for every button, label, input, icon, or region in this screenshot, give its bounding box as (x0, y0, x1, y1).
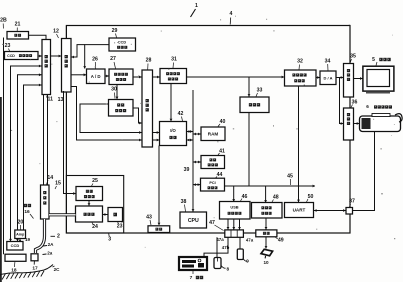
wire 25 to 24 (88, 201, 90, 207)
wire 27 to 28 (133, 76, 142, 78)
mouse 8 icon (214, 258, 221, 269)
dimming controller 25 (76, 187, 103, 201)
light guide thick path 14 down to 17 (36, 219, 45, 253)
box matrix 21 (7, 32, 29, 40)
svg-text:CCD: CCD (7, 54, 15, 58)
svg-text:2C: 2C (54, 267, 61, 272)
svg-text:25: 25 (92, 178, 98, 184)
svg-text:43: 43 (146, 215, 152, 221)
svg-text:2: 2 (57, 233, 60, 239)
svg-text:D / A: D / A (324, 75, 333, 80)
isolator 11 tall box (42, 40, 51, 95)
svg-text:45: 45 (287, 174, 293, 180)
svg-text:27: 27 (110, 56, 116, 62)
bus to RAM (193, 133, 201, 135)
keyboard 7 icon (179, 257, 207, 270)
svg-text:Amp: Amp (16, 232, 25, 236)
amplifier 20 (15, 230, 26, 239)
light measuring controller 30 (109, 100, 134, 117)
PC card 10 icon parallelogram (261, 249, 273, 256)
svg-text:8: 8 (227, 267, 230, 272)
wire 11 to 13 (51, 55, 62, 57)
card slot 49 on enclosure bottom (256, 230, 277, 237)
objective unit 18 (5, 254, 26, 261)
svg-text:40: 40 (220, 119, 226, 125)
svg-text:34: 34 (325, 58, 331, 64)
svg-text:A / D: A / D (91, 74, 101, 79)
wire UART to 37 bidirectional (314, 210, 347, 212)
processor unit enclosure 4 (66, 26, 350, 234)
wire 37 to printer riser (353, 132, 375, 211)
rear video processor 31 (160, 69, 187, 84)
wire 29 to selector 13 (71, 45, 85, 57)
wire 21 to isolator 11 top (29, 35, 47, 39)
wire 13 to A/D (71, 74, 87, 76)
wire 47 middle port to mouse 8 (216, 237, 218, 257)
svg-text:23: 23 (117, 223, 123, 229)
svg-text:42: 42 (178, 111, 184, 117)
svg-text:41: 41 (219, 148, 225, 154)
svg-text:9: 9 (246, 259, 249, 264)
bus drop to PC card controller (265, 186, 267, 203)
graphics overlay 32 (285, 70, 317, 86)
wire 47 right port to 9 (239, 237, 241, 249)
CCD 19 (7, 242, 23, 251)
wires 11 down to 14 (43, 95, 45, 186)
svg-text:49: 49 (278, 238, 284, 244)
svg-text:50: 50 (308, 194, 314, 200)
wire from selector 13 down into 25 (64, 91, 77, 194)
wire 32 down to UART (298, 86, 300, 202)
bus to I/O port stubs (187, 131, 194, 133)
svg-text:12: 12 (53, 28, 59, 34)
svg-text:20: 20 (18, 219, 24, 225)
label optical 16 (24, 204, 27, 207)
svg-text:19: 19 (25, 237, 31, 242)
svg-text:28: 28 (146, 58, 152, 64)
svg-text:33: 33 (257, 88, 263, 94)
A/D converter 26 (87, 69, 106, 84)
wire 35 to monitor (354, 78, 363, 80)
wire 30 left-down to 28 (80, 104, 142, 133)
svg-text:I/O: I/O (170, 128, 176, 133)
wire I/O port down to 43 (158, 146, 160, 226)
lens unit 17 (31, 254, 38, 261)
svg-text:47a: 47a (246, 237, 254, 242)
D/A converter 34 (320, 71, 336, 85)
front video processor 27 (109, 69, 133, 85)
wire 28 to I/O port upper (153, 132, 160, 134)
video printer 6 icon (360, 116, 401, 132)
wire 47 left port to keyboard (204, 237, 228, 257)
svg-text:11: 11 (48, 96, 54, 102)
field memory 28 tall box (142, 70, 153, 147)
svg-text:7: 7 (190, 275, 193, 281)
wire 28 to 31 (153, 76, 161, 78)
connector 36 tall box (344, 108, 354, 140)
wire 31 down to I/O port (170, 84, 172, 122)
bus drop to USB host controller (233, 186, 235, 202)
connector 37 small box (346, 208, 353, 215)
svg-text:2B: 2B (0, 17, 7, 23)
wire D/A to connector 35 (336, 77, 344, 79)
lamp 23 (108, 208, 123, 222)
wire CCD to Amp (19, 239, 21, 242)
microphone 9 icon (237, 249, 243, 260)
subject 2C hatched tissue (0, 265, 53, 275)
svg-text:CCD: CCD (118, 41, 126, 45)
monitor 5 icon (363, 66, 394, 91)
wire 32 to D/A (316, 77, 320, 79)
wire 31 to graphics overlay 32 (187, 76, 285, 78)
wire tee down to connector 36 (340, 78, 344, 124)
bus to PCI bridge (193, 184, 201, 186)
USB host controller 46 (220, 202, 251, 220)
svg-text:29: 29 (112, 28, 118, 34)
wire 48 to 49 (265, 218, 267, 230)
svg-text:39: 39 (184, 167, 190, 173)
svg-text:CPU: CPU (188, 218, 199, 224)
light guide connector 14 tall box (41, 185, 50, 219)
svg-text:48: 48 (273, 195, 279, 201)
svg-text:44: 44 (217, 172, 223, 178)
light guide thick path 24 to 14 (49, 213, 76, 216)
svg-text:UART: UART (293, 208, 306, 213)
wire CCD drive line 2 down to CCD (18, 75, 43, 241)
svg-text:38: 38 (181, 199, 187, 205)
svg-text:1: 1 (195, 3, 198, 9)
tick below 17 (33, 261, 35, 265)
wires 46 to 47 (227, 219, 229, 230)
wire video line from Amp up to processor 11 (24, 85, 43, 230)
svg-text:35: 35 (350, 54, 356, 60)
wire junction 31-32 line down to 33 (248, 77, 250, 97)
wire 23 to 11 (38, 55, 42, 57)
scan edge artifact left (0, 97, 2, 282)
PC card controller 48 (252, 203, 283, 219)
CPU 38 (180, 212, 207, 228)
svg-text:14: 14 (47, 175, 53, 181)
svg-text:USB: USB (230, 204, 238, 209)
I/O port 42 (160, 122, 187, 146)
RAM 40 (201, 127, 225, 141)
svg-text:13: 13 (58, 97, 64, 103)
svg-text:26: 26 (92, 56, 98, 62)
svg-text:5: 5 (372, 57, 375, 63)
svg-text:46: 46 (242, 194, 248, 200)
selector 13 tall box (62, 39, 72, 93)
wire top border into 13 (65, 26, 67, 39)
svg-text:32: 32 (297, 59, 303, 65)
wire lamp to dimmer (103, 214, 109, 216)
svg-text:4: 4 (230, 11, 233, 17)
wire 29 to A/D top (85, 45, 109, 69)
svg-text:3: 3 (108, 237, 111, 243)
svg-text:6: 6 (366, 104, 369, 109)
UART 50 (285, 203, 314, 218)
svg-text:17: 17 (32, 265, 38, 271)
system bus 39 (192, 90, 194, 212)
wire 13 bypass to field memory 28 (71, 87, 142, 141)
graphics buffer 33 (240, 97, 269, 113)
svg-text:2A: 2A (48, 242, 55, 247)
svg-text:21: 21 (15, 22, 21, 28)
bus to flash memory (193, 161, 201, 163)
USB connector block 47 on enclosure bottom (225, 230, 244, 237)
svg-text:PCI: PCI (209, 181, 215, 185)
svg-text:30: 30 (111, 87, 117, 93)
wire scope cable from matrix 21 down to objective unit 18 (3, 38, 5, 255)
wire 36 to printer (354, 123, 360, 125)
svg-text:2a: 2a (47, 251, 53, 256)
wire CCD drive line down to CCD (11, 66, 43, 241)
wire 27 to light control 30 (116, 85, 118, 100)
svg-text:23: 23 (5, 43, 11, 49)
svg-text:10: 10 (263, 260, 269, 265)
wire 49 to PC card 10 (265, 237, 267, 249)
dimmer 24 (76, 206, 103, 222)
wire 28 to I/O port lower (153, 139, 160, 141)
svg-text:47: 47 (209, 220, 215, 226)
light source sub-enclosure 3 (66, 176, 123, 234)
connector 35 tall box (344, 64, 354, 98)
wire 30 right to 28 (133, 108, 142, 123)
svg-text:16: 16 (24, 209, 30, 215)
scan speckles (130, 44, 133, 45)
PCI bus bridge 44 (201, 178, 225, 191)
battery 43 on enclosure bottom (148, 226, 170, 233)
wire A/D to 27 (105, 75, 109, 77)
svg-text:47b: 47b (222, 245, 230, 250)
svg-text:31: 31 (171, 57, 177, 63)
PCI bus 45 (225, 185, 316, 187)
svg-text:47a: 47a (216, 237, 224, 242)
wire 33 down to PCI bus 45 (248, 113, 250, 186)
svg-text:RAM: RAM (208, 131, 219, 136)
CCD driver 29 (109, 38, 136, 51)
svg-text:15: 15 (55, 181, 61, 187)
box CCD drive signal generator 23 (5, 52, 39, 60)
flash memory 41 (201, 156, 225, 169)
svg-text:CCD: CCD (11, 243, 20, 248)
svg-text:37: 37 (349, 199, 355, 205)
